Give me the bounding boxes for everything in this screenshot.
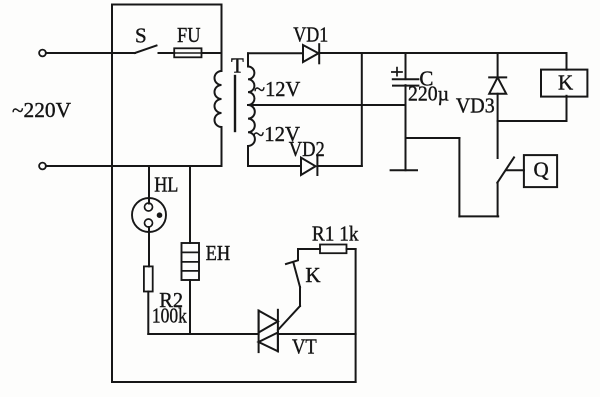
enclosure frame left edge: [111, 5, 113, 383]
svg-text:T: T: [231, 54, 244, 78]
wire switch to fuse: [159, 52, 175, 54]
svg-text:FU: FU: [177, 23, 201, 47]
svg-text:R1 1k: R1 1k: [312, 222, 359, 246]
wire VD2 to riser: [317, 165, 361, 167]
wire top rail: [319, 52, 566, 54]
diode VD2: [301, 158, 316, 175]
wire N terminal to primary bottom: [46, 165, 222, 167]
transformer T primary lead lower: [221, 127, 223, 166]
triac VT upper triangle: [259, 311, 278, 333]
svg-text:EH: EH: [206, 241, 231, 265]
wire fuse to transformer: [202, 52, 222, 54]
resistor R2: [144, 266, 153, 291]
capacitor C lead upper: [405, 53, 407, 79]
wire K coil bottom to VD3: [498, 120, 567, 122]
diode VD3 lead upper: [497, 53, 499, 77]
svg-text:K: K: [558, 71, 573, 95]
fuse FU: [174, 48, 201, 57]
capacitor C lead lower: [405, 85, 407, 170]
wire riser VD2 to top rail: [361, 53, 363, 166]
svg-text:K: K: [305, 263, 320, 287]
svg-text:~220V: ~220V: [12, 98, 71, 122]
transformer T secondary winding lower: [248, 105, 255, 146]
triac VT left bar: [258, 311, 260, 353]
lamp HL lead lower: [148, 227, 150, 266]
wire secondary bottom to VD2: [248, 165, 301, 167]
wire Q loop riser: [497, 183, 499, 217]
diode VD3 lead lower: [497, 94, 499, 158]
transformer T secondary lead lower: [247, 146, 249, 166]
diode VD3: [489, 76, 506, 78]
transformer T core: [234, 76, 236, 131]
terminal upper (L): [39, 50, 46, 57]
wire L terminal to switch: [46, 52, 135, 54]
heater EH lead upper: [189, 166, 191, 243]
svg-text:220µ: 220µ: [408, 82, 449, 106]
terminal lower (N): [39, 163, 46, 170]
wire centre tap to capacitor: [248, 104, 406, 106]
switch Q blade: [497, 157, 514, 182]
contact K fixed lead: [297, 249, 299, 260]
capacitor C plates: [393, 78, 419, 80]
wire Q loop left vertical: [458, 138, 460, 216]
wire bottom rail to triac: [148, 333, 258, 335]
wire bottom edge: [112, 381, 356, 383]
relay coil K box: [541, 70, 587, 97]
capacitor C polarity plus: [392, 68, 402, 76]
ground bar: [391, 169, 417, 171]
lamp HL lead upper: [148, 166, 150, 204]
wire Q box to blade: [506, 169, 524, 171]
transformer T primary lead upper: [221, 5, 223, 72]
lamp HL: [132, 198, 166, 232]
diode VD1: [303, 45, 319, 62]
heater EH: [182, 243, 200, 280]
svg-text:VT: VT: [292, 335, 317, 359]
thermostat Q box: [524, 155, 557, 187]
transformer T secondary winding upper: [248, 67, 254, 106]
heater EH lead lower: [189, 280, 191, 334]
svg-text:Q: Q: [534, 158, 549, 182]
wire top rail corner down to K: [566, 53, 568, 70]
svg-text:S: S: [135, 24, 147, 48]
wire triac to right vertical: [278, 333, 356, 335]
contact K blade: [294, 263, 301, 287]
triac VT lower triangle: [259, 333, 278, 352]
enclosure frame top edge: [112, 4, 222, 6]
resistor R2 lead lower: [147, 292, 149, 335]
wire branch cap to Q loop: [406, 137, 460, 139]
svg-text:VD3: VD3: [456, 94, 495, 118]
contact K tick: [286, 261, 298, 265]
wire K bottom: [566, 96, 568, 121]
transformer T primary winding: [215, 71, 222, 127]
wire Q loop bottom: [459, 215, 498, 217]
wire contact to R1: [298, 248, 320, 250]
switch S blade: [135, 46, 157, 54]
wire R1 to right vertical: [347, 248, 356, 250]
svg-text:HL: HL: [154, 173, 178, 197]
svg-text:100k: 100k: [152, 304, 187, 328]
svg-text:VD1: VD1: [293, 23, 328, 47]
resistor R1: [320, 245, 347, 254]
contact K lead from gate: [299, 287, 301, 306]
triac VT right bar: [277, 310, 279, 352]
svg-text:VD2: VD2: [289, 137, 325, 161]
triac VT gate: [278, 306, 300, 330]
svg-text:~12V: ~12V: [254, 77, 300, 101]
wire secondary top to VD1: [248, 52, 303, 54]
wire right vertical: [355, 249, 357, 382]
transformer T secondary lead upper: [247, 53, 249, 66]
